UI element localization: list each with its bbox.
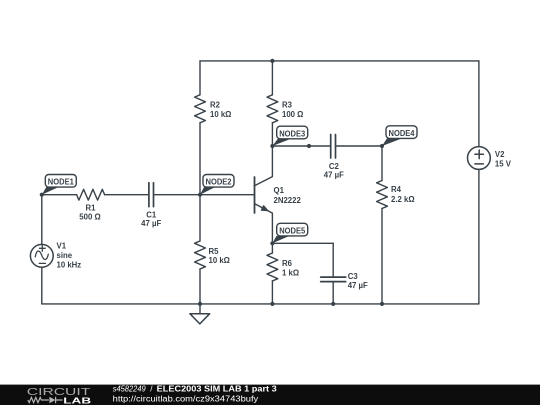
svg-text:15 V: 15 V <box>495 159 512 168</box>
svg-text:V2: V2 <box>495 150 505 159</box>
transistor Q1 <box>255 146 273 243</box>
node NODE3 label flag <box>272 126 307 146</box>
svg-text:1 kΩ: 1 kΩ <box>282 268 299 277</box>
svg-text:47 µF: 47 µF <box>348 281 368 290</box>
resistor R3 <box>271 61 273 95</box>
svg-text:C3: C3 <box>348 272 359 281</box>
svg-text:10 kΩ: 10 kΩ <box>210 110 231 119</box>
wire C1 to Q1 base (NODE2) <box>154 194 254 196</box>
svg-text:R4: R4 <box>391 185 402 194</box>
wire top bus <box>200 60 479 62</box>
svg-text:R2: R2 <box>210 101 221 110</box>
node NODE1 label flag <box>42 175 77 195</box>
svg-text:sine: sine <box>57 251 73 260</box>
svg-text:R5: R5 <box>209 247 220 256</box>
svg-text:10 kHz: 10 kHz <box>57 260 82 269</box>
svg-text:10 kΩ: 10 kΩ <box>209 256 230 265</box>
svg-text:500 Ω: 500 Ω <box>79 212 100 221</box>
svg-text:NODE3: NODE3 <box>279 129 306 138</box>
svg-text:R6: R6 <box>282 259 293 268</box>
capacitor C2 <box>331 135 336 159</box>
svg-text:C1: C1 <box>146 210 157 219</box>
voltage source V1 (sine) <box>30 195 53 304</box>
svg-text:LAB: LAB <box>63 397 91 405</box>
CircuitLab logo <box>27 387 92 405</box>
wire NODE3 to C2 <box>272 145 329 147</box>
wire NODE1 to R1 <box>42 194 77 196</box>
svg-text:47 µF: 47 µF <box>324 171 344 180</box>
resistor R4 <box>381 146 383 181</box>
capacitor C3 <box>332 243 334 276</box>
svg-text:NODE5: NODE5 <box>279 227 306 236</box>
svg-text:http://circuitlab.com/cz9x3474: http://circuitlab.com/cz9x34743bufy <box>113 394 259 403</box>
footer bar <box>0 385 540 405</box>
resistor R1 <box>77 189 105 200</box>
svg-text:V1: V1 <box>57 242 67 251</box>
svg-text:C2: C2 <box>329 162 340 171</box>
svg-text:ELEC2003 SIM LAB 1 part 3: ELEC2003 SIM LAB 1 part 3 <box>157 385 278 394</box>
svg-text:NODE2: NODE2 <box>206 178 233 187</box>
wire bottom bus <box>42 303 479 305</box>
ground <box>190 304 210 324</box>
resistor R2 <box>199 61 201 95</box>
svg-text:R1: R1 <box>86 204 97 213</box>
svg-text:Q1: Q1 <box>274 186 285 195</box>
voltage source V2 (DC) <box>468 61 491 304</box>
svg-text:2.2 kΩ: 2.2 kΩ <box>391 195 415 204</box>
svg-text:NODE4: NODE4 <box>389 129 416 138</box>
svg-text:2N2222: 2N2222 <box>274 196 302 205</box>
node NODE4 label flag <box>382 126 417 146</box>
wire C2 to NODE4 <box>336 145 382 147</box>
node NODE2 label flag <box>200 175 234 195</box>
svg-text:R3: R3 <box>282 101 293 110</box>
wire NODE5 to C3 <box>272 242 333 244</box>
svg-text:47 µF: 47 µF <box>141 219 161 228</box>
svg-text:NODE1: NODE1 <box>48 178 75 187</box>
capacitor C1 <box>149 183 154 207</box>
wire R1 to C1 <box>105 194 148 196</box>
resistor R6 <box>271 243 273 253</box>
svg-text:s4582249: s4582249 <box>113 385 147 394</box>
svg-text:100 Ω: 100 Ω <box>282 110 303 119</box>
node NODE5 label flag <box>272 223 307 243</box>
resistor R5 <box>199 195 201 241</box>
